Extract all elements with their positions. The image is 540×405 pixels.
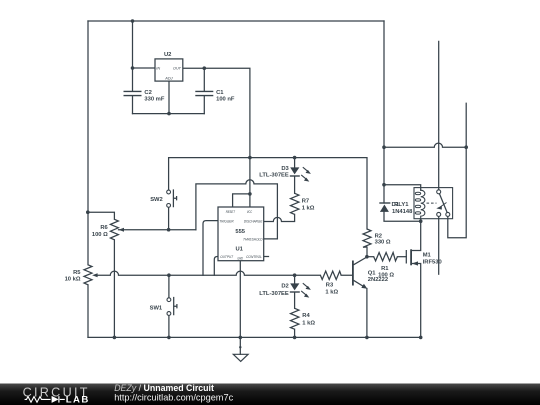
svg-text:http://circuitlab.com/cpgem7c: http://circuitlab.com/cpgem7c [114, 393, 233, 403]
svg-text:ADJ: ADJ [164, 77, 172, 81]
node top rail / C2 branch [131, 19, 135, 23]
node R6 branch [86, 210, 90, 214]
node SW1 top [167, 273, 171, 277]
svg-text:100 nF: 100 nF [216, 97, 235, 103]
wire bottom rail [88, 336, 421, 338]
wire relay coil top feed [384, 185, 421, 191]
node bottom SW1 [167, 336, 171, 340]
LED D2 [259, 283, 311, 297]
resistor R3 [320, 271, 341, 295]
node bottom R6 [113, 336, 117, 340]
resistor R2 [363, 229, 391, 247]
node ADJ bottom [167, 112, 171, 116]
svg-text:D3: D3 [281, 166, 289, 172]
node SW2 / R6 wiper [167, 228, 171, 232]
wire D2 top lead [294, 275, 296, 283]
switch SW2 [150, 189, 176, 207]
svg-text:555: 555 [235, 229, 245, 235]
node bottom GND [239, 336, 243, 340]
svg-text:SW2: SW2 [150, 197, 163, 203]
svg-text:LTL-307EE: LTL-307EE [259, 291, 289, 297]
svg-text:10 kΩ: 10 kΩ [65, 277, 81, 283]
node mid rail / VCC line [248, 156, 252, 160]
svg-text:1 kΩ: 1 kΩ [302, 321, 315, 327]
node coil bottom [419, 219, 423, 223]
wire Q1 emitter drop [366, 289, 368, 338]
wire C2-ADJ-C1 bottom link [133, 113, 205, 115]
svg-text:100 Ω: 100 Ω [378, 273, 394, 279]
capacitor C2 [124, 90, 165, 103]
wire right branch vertical from top rail [383, 21, 385, 203]
svg-text:R4: R4 [302, 313, 310, 319]
wire relay upper horizontal [384, 143, 466, 147]
svg-text:R3: R3 [326, 282, 334, 288]
node C1 top [203, 66, 207, 70]
svg-text:DEZy / Unnamed Circuit: DEZy / Unnamed Circuit [114, 383, 214, 393]
wire relay common stub [438, 41, 440, 189]
svg-text:1 kΩ: 1 kΩ [325, 289, 338, 295]
wire CONTROL stub [264, 256, 269, 258]
resistor R5 potentiometer [65, 265, 98, 285]
node relay horizontal left [382, 145, 386, 149]
svg-text:C1: C1 [216, 90, 224, 96]
svg-text:R7: R7 [302, 199, 309, 205]
node diode top [382, 183, 386, 187]
svg-text:R5: R5 [73, 270, 81, 276]
svg-text:IRF530: IRF530 [423, 259, 442, 265]
svg-text:1N4148: 1N4148 [392, 209, 413, 215]
node bottom Q1 emitter [365, 336, 369, 340]
ground [233, 346, 248, 361]
transistor M1 MOSFET [406, 249, 441, 265]
svg-text:CONTROL: CONTROL [246, 255, 262, 259]
wire Q1 collector node to R1 [367, 256, 374, 258]
wire relay NC stub [438, 216, 440, 274]
wire R2 to Q1 collector node [366, 247, 368, 257]
svg-text:OUT: OUT [173, 67, 182, 71]
diode D1 1N4148 [379, 202, 413, 215]
wire U2 ADJ pin [168, 81, 170, 114]
svg-text:1 kΩ: 1 kΩ [302, 206, 315, 212]
node RESET link [248, 192, 252, 196]
svg-text:M1: M1 [423, 252, 432, 258]
wire TRIGGER riser [203, 221, 218, 276]
wire relay NO loop [448, 103, 466, 238]
svg-text:DISCHARGE: DISCHARGE [244, 220, 263, 224]
svg-text:THRESHOLD: THRESHOLD [243, 238, 263, 242]
node mid rail / D3 [293, 156, 297, 160]
svg-text:U2: U2 [164, 52, 171, 58]
regulator U2 [155, 52, 183, 81]
svg-text:R1: R1 [381, 266, 389, 272]
svg-text:VCC: VCC [247, 210, 253, 214]
svg-text:C2: C2 [144, 90, 151, 96]
wire R6 branch bottom [113, 240, 115, 338]
wire M1 drain to coil [412, 221, 421, 250]
wire R6 wiper line [119, 229, 196, 231]
wire mid supply rail with SW2 drop and R2 drop [169, 158, 367, 229]
wire R6 branch top [88, 212, 115, 219]
resistor R4 [291, 308, 316, 329]
wire GND drop [239, 261, 241, 355]
wire SW1 leads [168, 275, 170, 337]
svg-text:U1: U1 [235, 247, 243, 253]
wire SW2 bottom lead [168, 207, 170, 229]
wire left rail lower [87, 285, 89, 338]
svg-text:GND: GND [237, 257, 243, 261]
svg-text:OUTPUT: OUTPUT [220, 255, 233, 259]
svg-text:IN: IN [156, 67, 160, 71]
svg-text:RESET: RESET [226, 210, 236, 214]
svg-text:330 mF: 330 mF [144, 97, 164, 103]
svg-text:SW1: SW1 [150, 306, 163, 312]
IC U1 (555 timer) [218, 207, 264, 261]
transistor Q1 [353, 257, 388, 289]
wire R4 bottom lead [294, 329, 296, 337]
resistor R1 [374, 253, 398, 279]
capacitor C1 [195, 90, 235, 103]
svg-text:LAB: LAB [66, 394, 90, 405]
wire U2 OUT to VCC vertical [183, 68, 250, 207]
svg-text:Q1: Q1 [368, 270, 377, 276]
LED D3 [259, 166, 311, 182]
wire R1 to M1 gate [397, 256, 406, 258]
wire THRESHOLD to R6 wiper [196, 180, 278, 239]
wire M1 source to bottom rail [412, 264, 421, 338]
node bottom M1 source [419, 336, 423, 340]
svg-text:D2: D2 [281, 284, 288, 290]
wire D3 top lead [294, 158, 296, 168]
svg-text:R6: R6 [100, 225, 108, 231]
node D2 top [293, 273, 297, 277]
wire C1 branch [203, 68, 205, 113]
node IN wire [131, 66, 135, 70]
wire C2 / U2-IN branch [133, 21, 156, 114]
wire DISCHARGE to R7 [264, 214, 295, 221]
wire top rail [88, 20, 384, 22]
svg-text:100 Ω: 100 Ω [92, 232, 108, 238]
wire D3 to R7 [294, 176, 296, 193]
footer bar with CircuitLab logo and title [0, 383, 540, 405]
wire OUTPUT riser [214, 257, 218, 276]
svg-text:330 Ω: 330 Ω [375, 240, 391, 246]
node bottom R4 [293, 336, 297, 340]
resistor R7 [291, 193, 315, 214]
wire D2 to R4 [294, 292, 296, 308]
wire left rail upper [87, 21, 89, 265]
node Q1 collector [365, 255, 369, 259]
switch SW1 [150, 297, 177, 316]
wire RESET link [233, 194, 250, 207]
svg-text:LTL-307EE: LTL-307EE [259, 173, 289, 179]
wire diode anode to relay coil bottom [384, 212, 421, 221]
svg-text:RLY1: RLY1 [394, 202, 409, 208]
node relay horizontal right [464, 145, 468, 149]
wire mid signal line R5 wiper to Q1 base [95, 271, 352, 275]
relay RLY1 [394, 188, 452, 222]
resistor R6 potentiometer [92, 219, 124, 240]
svg-text:TRIGGER: TRIGGER [219, 220, 234, 224]
node dots [86, 19, 468, 339]
